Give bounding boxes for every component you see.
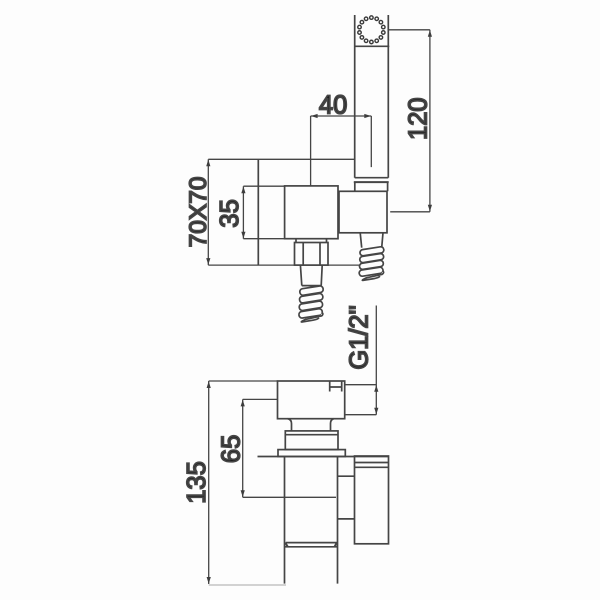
handle band bbox=[354, 178, 389, 192]
lever mark H bbox=[330, 382, 342, 392]
dimension line 35 bbox=[243, 186, 284, 239]
handle tube bbox=[355, 46, 389, 177]
svg-text:G1/2": G1/2" bbox=[345, 305, 373, 369]
flange bbox=[278, 450, 345, 457]
side view handle block bbox=[278, 381, 345, 419]
hose connector stub right bbox=[360, 233, 383, 248]
svg-text:120: 120 bbox=[405, 97, 433, 140]
dimension line 135 bbox=[209, 381, 286, 585]
dimension line 40 bbox=[311, 116, 372, 186]
outlet box bbox=[355, 456, 389, 544]
square-to-nut stubs bbox=[296, 239, 327, 243]
svg-text:40: 40 bbox=[319, 91, 347, 119]
shower head body bbox=[354, 15, 389, 46]
neck taper bbox=[288, 419, 335, 431]
svg-text:65: 65 bbox=[218, 435, 246, 463]
right hose coil bbox=[359, 246, 384, 280]
tube band bbox=[284, 543, 337, 547]
G1/2 leader line bbox=[345, 306, 377, 415]
dimension line 65 bbox=[243, 399, 336, 497]
wall plate left edge bbox=[257, 159, 259, 265]
outlet connector lines bbox=[338, 476, 355, 519]
dimension line 120 bbox=[389, 30, 430, 212]
svg-text:70X70: 70X70 bbox=[185, 176, 212, 247]
valve body square bbox=[285, 186, 338, 239]
hose stem below nut bbox=[300, 265, 322, 286]
collar bbox=[285, 431, 338, 450]
holder bracket bbox=[339, 191, 387, 233]
dimension line 70X70 bbox=[207, 159, 209, 265]
svg-text:35: 35 bbox=[216, 199, 244, 227]
left hose coil bbox=[298, 286, 323, 323]
wall plate top edge / 70X70 top extension bbox=[208, 158, 354, 160]
body tube bbox=[285, 457, 338, 584]
wall line bbox=[258, 456, 389, 458]
spray face dots bbox=[358, 16, 385, 44]
nut bbox=[295, 243, 329, 266]
wall plate bottom edge / 70X70 bottom extension bbox=[208, 264, 359, 266]
svg-text:135: 135 bbox=[183, 461, 211, 504]
